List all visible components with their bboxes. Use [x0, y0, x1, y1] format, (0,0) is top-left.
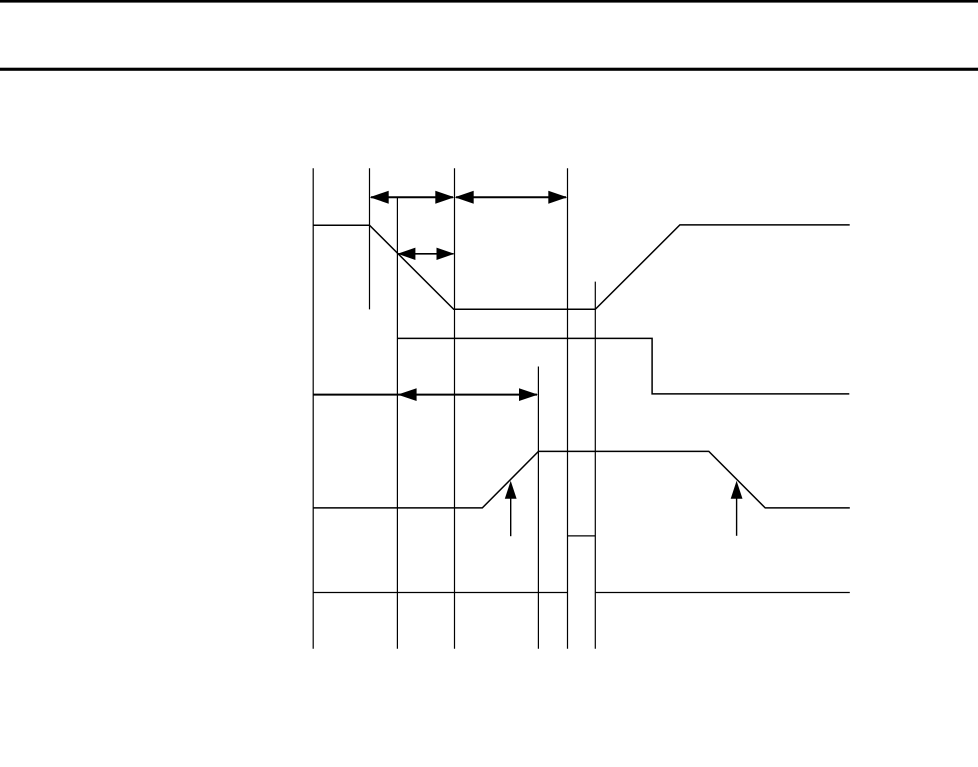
top page bar: [0, 0, 978, 3]
waveform S3 (data-valid signal): [313, 451, 850, 508]
waveform S2 (second signal, falling edge): [397, 338, 849, 394]
header rule: [0, 68, 978, 71]
vertical reference line t5 (x=538.4): [537, 367, 539, 649]
vertical reference line t1 (x=313): [312, 168, 314, 649]
vertical reference line t2 (x=369.5, short): [369, 168, 371, 309]
vertical reference line t6 (x=567.5): [567, 168, 569, 649]
up arrow U1 (points at rising edge of S3): [505, 481, 517, 536]
notch segment between t6 and t7: [568, 535, 596, 537]
bottom baseline left segment: [313, 592, 567, 594]
vertical reference line t4 (x=454.5): [454, 168, 456, 649]
up arrow U2 (points at falling edge of S3): [731, 481, 743, 536]
measurement arrow A2 (t4 to t6): [455, 191, 568, 204]
vertical reference line t7 (x=595.3): [594, 282, 596, 649]
measurement arrow A1 (t2 to t4): [370, 191, 455, 204]
vertical reference line t3 (x=397.3): [396, 197, 398, 649]
measurement arrow A3 (with leader, t3 to t5): [313, 388, 538, 401]
waveform S1 (top signal, active-low pulse): [313, 225, 850, 309]
bottom baseline right segment: [595, 592, 850, 594]
measurement arrow A4 (small, t3 to t4): [398, 248, 455, 260]
